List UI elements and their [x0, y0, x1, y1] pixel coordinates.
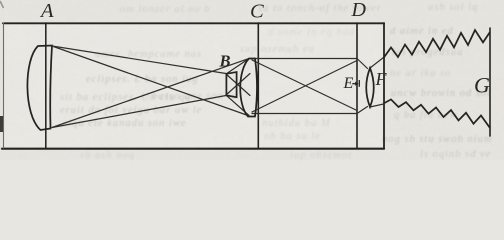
ray mirror-top to plate-top: [52, 46, 226, 74]
ray crossing inside plate B: [226, 74, 250, 96]
tube interior (slightly lighter paper): [4, 24, 384, 148]
ray D-top to lensF-top: [357, 59, 368, 69]
ray plate-top to lensC-top tip: [226, 59, 249, 74]
ray lensF-top to break: [370, 58, 384, 69]
eyepiece lens F: [366, 68, 374, 107]
ray lensC-top diagonal to D-bottom: [252, 60, 357, 111]
photographic plate B: [226, 72, 236, 97]
ray lensF-bottom to break: [370, 104, 384, 107]
ray plate-bottom to lensC-bottom tip: [226, 95, 249, 115]
field lens plane line C: [257, 23, 259, 148]
break zigzag bottom: [384, 99, 491, 128]
ray lensC-bottom diagonal to D-top: [252, 61, 357, 113]
ray mirror-bottom to lensC-top tip: [52, 59, 248, 128]
ray lensC-bottom horizontal to D: [252, 113, 357, 115]
ray mirror-bottom to plate-bottom: [52, 96, 226, 128]
ray lensC-top horizontal to D: [252, 58, 357, 60]
scanner edge smudge left: [0, 116, 3, 132]
tube frame right wall: [383, 23, 385, 148]
scanner corner mark top-left: [0, 1, 4, 8]
tube frame bottom wall: [2, 148, 384, 150]
break zigzag top: [384, 30, 491, 58]
ray mirror-top to lensC-bottom tip: [52, 46, 248, 116]
tube frame top wall: [3, 22, 384, 24]
mirror plane line A: [45, 23, 47, 148]
tube frame left wall: [3, 23, 5, 148]
field lens at C: [240, 59, 257, 117]
focal point arrow at E: [352, 80, 359, 87]
paper grain: [0, 0, 504, 160]
objective mirror A: [27, 46, 52, 131]
ray D-bottom to lensF-bottom: [357, 107, 368, 114]
ray crossing inside plate B (2): [226, 74, 250, 96]
bleed-through text from reverse page: [120, 4, 211, 15]
diaphragm plane line D: [356, 23, 358, 148]
screen line G: [489, 28, 491, 136]
